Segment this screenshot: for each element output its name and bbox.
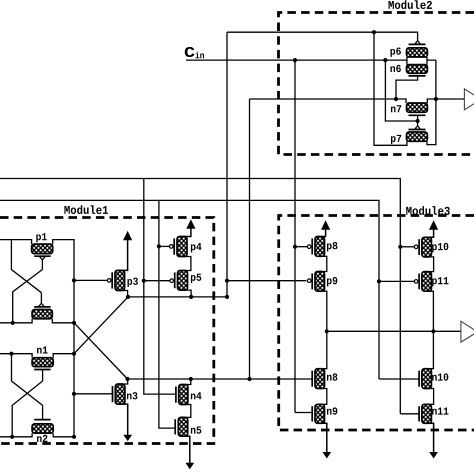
label p5: [191, 274, 201, 283]
label n11: [432, 408, 448, 415]
wire diagonal p3-bottom to n-top: [74, 297, 128, 354]
transistor p7: [407, 121, 428, 141]
label p8: [327, 242, 337, 251]
node rail227 to p9 gate: [225, 279, 229, 283]
transistor n8: [312, 369, 327, 405]
wire latch n-pair bottom: [0, 433, 74, 437]
node p6 gate to p7 drain junction: [372, 30, 376, 34]
power vdd arrow p3: [124, 232, 132, 240]
label p11: [432, 277, 448, 286]
node p8 gate on Cin rail: [293, 245, 297, 249]
power vdd arrow p4: [187, 220, 195, 228]
wire Sum out: [327, 330, 461, 332]
wire p-pair cross-couple left-up: [11, 240, 41, 293]
wire rail B x158.9: [159, 200, 175, 428]
wire p8 gate: [295, 246, 307, 248]
node latch rail n-bottom: [72, 435, 76, 439]
node latch rail n-top: [72, 352, 76, 356]
label Cin: [185, 47, 204, 58]
node latch rail p-bottom: [72, 321, 76, 325]
wire Cout internal rail: [427, 60, 436, 145]
wire p6-n6 shared terminals: [407, 57, 436, 65]
transistor n10: [419, 369, 434, 405]
node n3 top on Sbar wire: [125, 377, 129, 381]
label n9: [327, 407, 337, 414]
label n8: [327, 373, 337, 380]
wire rail A x143.8: [144, 179, 176, 395]
transistor p3: [107, 238, 127, 297]
wire input y200: [0, 200, 379, 379]
transistor p5: [170, 271, 191, 297]
label n6: [390, 65, 400, 72]
label n2: [37, 435, 47, 442]
label p10: [432, 243, 448, 252]
transistor n2: [32, 405, 53, 433]
label p9: [327, 277, 337, 286]
transistor n6: [396, 65, 427, 99]
label Module2: [389, 0, 432, 9]
label p4: [191, 243, 202, 252]
wire p6-gate net horizontal y32: [227, 32, 418, 41]
ground arrow n11: [430, 452, 438, 458]
node n1 gate on bottom wire: [10, 435, 14, 439]
label n10: [432, 373, 448, 380]
wire n11 gate: [400, 413, 419, 415]
transistor n1: [32, 358, 53, 381]
transistor p2: [32, 293, 52, 319]
label n5: [191, 427, 201, 434]
label p1: [36, 233, 47, 242]
wire S internal y297: [128, 296, 227, 298]
node latch rail to n3 gate: [72, 392, 76, 396]
wire input y178: [0, 179, 400, 414]
module box Module1: [0, 218, 214, 444]
wire n-pair cross-couple left-down: [12, 381, 42, 437]
label n3: [127, 392, 137, 399]
power vdd arrow p8: [322, 221, 330, 230]
node n6-gate junction on y99: [394, 97, 398, 101]
node latch rail to p3 gate: [72, 278, 76, 282]
transistor n4: [176, 379, 191, 417]
wire latch n-pair top: [0, 354, 74, 358]
wire p11 gate: [379, 280, 414, 282]
transistor p10: [414, 228, 433, 272]
transistor n7: [407, 99, 465, 121]
wire p9 gate long: [227, 280, 306, 282]
wire Cin to n7/p7 gates: [385, 60, 417, 121]
wire n6-gate net rail x250: [249, 99, 251, 379]
label Module3: [406, 206, 450, 215]
node p3 bottom on S wire: [126, 295, 130, 299]
wire p10 gate: [400, 246, 414, 248]
node p5 bottom on S wire: [189, 295, 193, 299]
label n1: [37, 346, 48, 353]
label Module1: [64, 205, 108, 214]
ground arrow n3: [124, 435, 132, 441]
transistor p8: [307, 228, 326, 272]
wire latch p-pair bottom: [0, 319, 74, 323]
module box Module2: [279, 13, 474, 155]
wire p4 gate: [159, 245, 169, 247]
transistor p11: [414, 272, 433, 369]
node Cin to n7/p7 gates junction: [383, 58, 387, 62]
transistor p4: [169, 227, 191, 271]
wire latch p-pair top: [0, 240, 74, 437]
node branch1 on Sum wire: [325, 329, 329, 333]
power vdd arrow p10: [430, 221, 438, 230]
buffer Cout: [464, 89, 474, 110]
wire n3 gate: [74, 393, 113, 395]
node p1 gate on bottom wire: [11, 321, 15, 325]
label n4: [191, 392, 202, 399]
node p10 gate on rail x400: [398, 245, 402, 249]
transistor p9: [307, 272, 326, 369]
node branch2 on Sum wire: [431, 329, 435, 333]
node n4 top on Sbar wire: [189, 377, 193, 381]
wire p3 gate: [74, 279, 107, 281]
node p5 gate on rail A: [142, 279, 146, 283]
wire n-pair cross-couple left-up: [12, 354, 43, 406]
transistor n5: [175, 417, 190, 465]
node n7/p7 gate junction: [416, 119, 420, 123]
label p6: [390, 48, 400, 57]
label p7: [391, 135, 401, 144]
node rail250 end on Sbar wire: [247, 377, 251, 381]
node p4 gate on rail B: [157, 244, 161, 248]
ground arrow n5: [186, 463, 194, 469]
wire Cin horizontal: [186, 59, 407, 61]
wire Sbar internal y379: [128, 378, 313, 380]
wire Cin rail down: [294, 60, 296, 412]
wire p-pair cross-couple left-down: [13, 270, 43, 323]
node n2 gate on top wire: [9, 352, 13, 356]
wire diagonal p-bottom to n3-top: [74, 323, 128, 379]
node Cout rail on out wire: [434, 97, 438, 101]
wire n9 gate: [295, 412, 312, 414]
label n7: [391, 105, 401, 112]
label p3: [127, 278, 137, 287]
wire p5 gate: [144, 280, 170, 282]
wire p6-gate net rail x227: [226, 32, 228, 297]
node p11 gate on rail x378: [377, 279, 381, 283]
wire n10 gate: [379, 378, 419, 380]
wire p7 drain rail x374: [374, 32, 407, 145]
buffer Sum: [461, 321, 474, 342]
transistor n3: [113, 379, 128, 437]
transistor p6: [407, 41, 428, 57]
ground arrow n9: [323, 452, 331, 458]
transistor n11: [419, 404, 434, 454]
transistor p1: [32, 244, 53, 269]
module box Module3: [279, 216, 474, 431]
node rail227 end on S wire: [225, 295, 229, 299]
transistor n9: [312, 404, 327, 454]
node Cin junction: [293, 58, 297, 62]
wire n6-gate net horizontal y99: [250, 99, 407, 103]
